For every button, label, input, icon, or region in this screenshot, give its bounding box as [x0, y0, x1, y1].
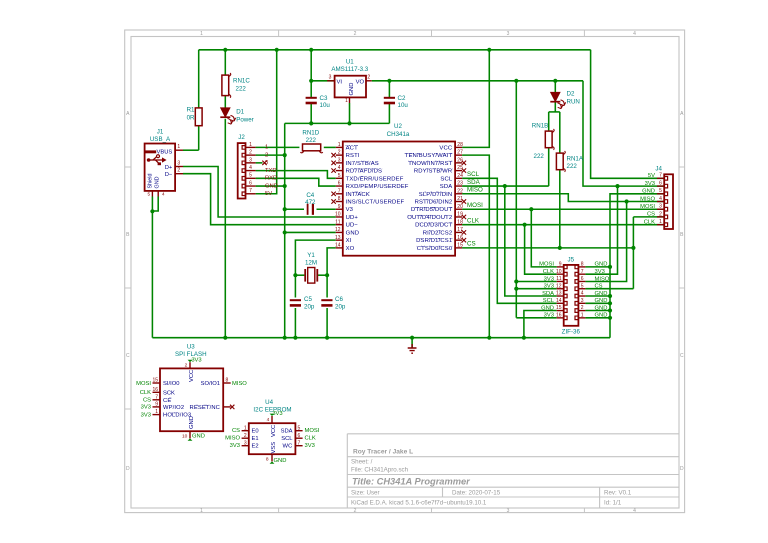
junction 3V3 at C2: [387, 79, 391, 83]
svg-text:5V: 5V: [648, 173, 655, 179]
svg-text:C4: C4: [306, 192, 314, 199]
J2 pin 4: [242, 169, 245, 173]
svg-text:1: 1: [155, 409, 158, 415]
U2 pin 21 RST/D6/DIN2: [455, 201, 462, 203]
U2 pin 8 INS/SLCT/USERDEF: [336, 201, 343, 203]
U2 pin 14 XO: [336, 247, 343, 249]
J1 pin D+: [175, 166, 183, 168]
svg-text:5: 5: [581, 283, 584, 289]
svg-text:CS: CS: [232, 428, 240, 434]
U2 pin 20 DTR/D5/DOUT: [455, 208, 462, 210]
svg-text:3: 3: [507, 508, 510, 514]
J5 pin 7 3V3: [575, 272, 578, 276]
svg-text:3: 3: [249, 157, 252, 163]
U2 pin 22 SLP/D7/DIN: [455, 193, 462, 195]
svg-text:13: 13: [556, 291, 562, 297]
U2 pin 1 ACT: [336, 146, 343, 148]
svg-text:18: 18: [457, 219, 463, 225]
svg-text:J5: J5: [568, 257, 575, 264]
U3 pin 15 SI/IO0: [153, 382, 161, 384]
U3 pin RESET/NC: [223, 406, 231, 408]
wire J5 GND pin15 to ground rail: [524, 311, 557, 338]
svg-text:3: 3: [329, 75, 332, 81]
connector J5 ZIF-36 body: [564, 265, 579, 326]
J5 pin 12 3V3: [564, 287, 567, 291]
wire J2 TXD to U2 pin5: [256, 171, 336, 179]
svg-text:2: 2: [177, 168, 180, 174]
U2 pin 19 OUT/D4/DOUT2: [455, 216, 462, 218]
svg-text:File: CH341Apro.sch: File: CH341Apro.sch: [351, 467, 409, 474]
svg-text:CLK: CLK: [467, 218, 480, 225]
J1 shield pin stubs: [151, 191, 153, 197]
junction ground rail at U2 pin27 drop: [487, 336, 491, 340]
junction on 5V rail at J2 riser: [275, 48, 279, 52]
J2 pin 5: [242, 177, 245, 181]
wire C6 to ground rail: [326, 308, 328, 338]
svg-text:1: 1: [249, 142, 252, 148]
J5 pin 5 CS: [575, 287, 578, 291]
U3 pin 7 CE: [153, 399, 161, 401]
LED D2 RUN: [551, 92, 560, 101]
J5 pin 10 CLK: [564, 272, 567, 276]
no-connect X on U2 pin 16: [462, 238, 466, 242]
svg-text:C5: C5: [304, 296, 312, 303]
svg-text:22: 22: [457, 188, 463, 194]
junction MISO at J5 riser: [625, 199, 629, 203]
no-connect X on U2 pin 4: [331, 168, 335, 172]
J5 pin 3 GND: [575, 302, 578, 306]
svg-text:3V3: 3V3: [191, 358, 201, 364]
svg-text:7: 7: [338, 188, 341, 194]
J4 pin 1 CLK: [664, 223, 667, 227]
svg-text:5: 5: [249, 173, 252, 179]
U2 pin 3 IN7/STB/AS: [336, 162, 343, 164]
svg-text:MISO: MISO: [232, 381, 247, 387]
svg-text:222: 222: [534, 153, 545, 160]
svg-text:V3: V3: [346, 207, 354, 213]
svg-text:3: 3: [581, 298, 584, 304]
junction J5 GND bus pin1: [608, 316, 612, 320]
wire crystal left plate: [295, 274, 304, 276]
wire U2 SDA to RN1B: [462, 185, 549, 187]
frame row ticks left: [125, 166, 131, 168]
svg-text:E0: E0: [252, 429, 259, 435]
svg-text:RN1A: RN1A: [567, 156, 584, 163]
svg-text:1: 1: [244, 425, 247, 431]
wire MOSI riser to J5 pin9: [531, 209, 556, 267]
junction ground rail at J5 GND drop: [522, 336, 526, 340]
svg-text:MOSI: MOSI: [640, 204, 655, 210]
svg-text:GND: GND: [595, 298, 608, 304]
wire D2 cathode junction bar: [549, 111, 560, 113]
svg-text:GND: GND: [155, 176, 161, 188]
svg-text:C: C: [126, 353, 130, 359]
wire RN1B bottom to SDA net: [548, 148, 550, 186]
junction ground rail at GND bus: [283, 336, 287, 340]
junction GND bus at C4: [283, 207, 287, 211]
svg-text:SLP/D7/DIN: SLP/D7/DIN: [419, 192, 453, 198]
wire RN1D to U2 ACT pin1: [324, 146, 336, 148]
svg-text:RN1B: RN1B: [532, 123, 549, 130]
svg-text:4: 4: [633, 508, 636, 514]
J5 pin 6 MISO: [575, 280, 578, 284]
U2 pin 16 DSR/D1/CS1: [455, 239, 462, 241]
svg-text:3: 3: [177, 160, 180, 166]
U4 VSS pin bottom: [271, 454, 273, 461]
wire J1 D- to U2 UD-: [183, 174, 336, 225]
no-connect X on U2 pin 26: [462, 161, 466, 165]
svg-text:11: 11: [556, 276, 561, 282]
capacitor C4: [307, 204, 309, 215]
regulator U1 AMS1117-3.3: [335, 76, 366, 98]
wire GND J4 pin5 to J5 GND bus: [610, 194, 664, 338]
wire J1 D+ to U2 UD+: [183, 167, 336, 217]
svg-text:222: 222: [306, 137, 317, 144]
resistor R1: [195, 108, 202, 126]
wire C3 bottom to GND: [310, 103, 312, 123]
svg-text:SDA: SDA: [467, 179, 481, 186]
svg-text:SCL: SCL: [440, 176, 452, 182]
U2 pin 18 DCD/D3/DCT: [455, 224, 462, 226]
junction GND bus at U2 GND: [283, 230, 287, 234]
wire J2 RXD to U2 pin6: [256, 178, 336, 186]
svg-text:4: 4: [659, 196, 662, 202]
svg-text:J4: J4: [655, 165, 662, 172]
svg-text:RSTI: RSTI: [346, 153, 360, 159]
wire crystal left to C5: [294, 275, 296, 297]
svg-text:D1: D1: [236, 109, 244, 116]
wire RN1C top from rail: [224, 50, 226, 75]
U3 pin 16 SCK: [153, 391, 161, 393]
svg-text:VBUS: VBUS: [157, 149, 173, 155]
svg-text:DCD/D3/DCT: DCD/D3/DCT: [415, 223, 452, 229]
svg-text:Date: 2020-07-15: Date: 2020-07-15: [452, 490, 501, 497]
J1 pin D-: [175, 173, 183, 175]
svg-text:10: 10: [335, 212, 341, 218]
connector J1 USB_A: [145, 144, 176, 191]
svg-text:1: 1: [581, 312, 584, 318]
capacitor C3: [306, 97, 317, 99]
wire U1 GND pin down: [349, 103, 351, 123]
junction J5 GND bus pin4: [608, 294, 612, 298]
svg-text:1: 1: [338, 142, 341, 148]
svg-text:15: 15: [152, 378, 158, 384]
svg-text:TXD: TXD: [265, 168, 277, 174]
svg-text:RN1C: RN1C: [233, 78, 250, 85]
svg-text:U1: U1: [346, 59, 354, 66]
wire 3V3 corner down to J4 pin 6: [583, 81, 664, 186]
svg-text:AMS1117-3.3: AMS1117-3.3: [331, 66, 368, 73]
svg-text:GND: GND: [265, 183, 278, 189]
svg-text:1: 1: [177, 144, 180, 150]
J5 pin 13 SDA: [564, 294, 567, 298]
frame column ticks top: [278, 30, 280, 37]
svg-text:4: 4: [338, 165, 341, 171]
U3 VCC pin top: [189, 362, 191, 368]
svg-text:7: 7: [298, 440, 301, 446]
svg-text:10: 10: [182, 433, 188, 439]
svg-text:5: 5: [147, 191, 150, 196]
svg-text:U3: U3: [187, 343, 195, 350]
svg-text:J1: J1: [157, 128, 164, 135]
J5 pin 2 GND: [575, 309, 578, 313]
svg-text:8: 8: [338, 196, 341, 202]
svg-text:1: 1: [265, 145, 268, 151]
svg-text:GND: GND: [346, 230, 360, 236]
title block cell dividers: [443, 487, 600, 508]
svg-text:10: 10: [556, 269, 562, 275]
junction J5 GND bus pin3: [608, 301, 612, 305]
J2 pin 7: [242, 192, 245, 196]
svg-text:12M: 12M: [305, 260, 317, 267]
svg-text:2: 2: [338, 150, 341, 156]
svg-text:3V3: 3V3: [544, 276, 554, 282]
wire MISO riser to J5 pin6: [585, 202, 626, 282]
svg-text:CLK: CLK: [140, 390, 151, 396]
svg-text:4: 4: [633, 31, 636, 37]
svg-text:Shield: Shield: [147, 174, 153, 189]
connector J2: [238, 143, 246, 198]
svg-text:GND: GND: [595, 262, 608, 268]
wire 5V rail corner down to J4 pin 7: [591, 50, 665, 179]
svg-text:2: 2: [249, 150, 252, 156]
J5 pin 16 3V3: [564, 316, 567, 320]
wire GND bus to U2 GND pin12: [285, 231, 336, 233]
U2 pin 4 RD7/AFD/DS: [336, 170, 343, 172]
junction 3V3-J4 wire at J5 pin7 riser: [615, 184, 619, 188]
no-connect X on U2 pin 7: [331, 192, 335, 196]
U2 pin 27 TEN/BUSY/WAIT: [455, 154, 462, 156]
U2 pin 10 UD+: [336, 216, 343, 218]
svg-text:8: 8: [266, 456, 269, 462]
svg-text:6: 6: [249, 180, 252, 186]
resistor RN1A: [556, 153, 563, 170]
J5 pin 9 MOSI: [564, 265, 567, 269]
svg-text:GND: GND: [274, 458, 287, 464]
svg-text:Id: 1/1: Id: 1/1: [604, 500, 622, 507]
U3 pin 8 SO/IO1: [223, 382, 231, 384]
junction J5 GND bus pin2: [608, 308, 612, 312]
svg-text:4: 4: [249, 165, 252, 171]
junction GND bus at J2 pin6: [283, 184, 287, 188]
svg-text:WP/IO2: WP/IO2: [163, 405, 184, 411]
svg-text:SDA: SDA: [542, 291, 554, 297]
svg-text:D−: D−: [165, 172, 173, 178]
svg-text:DTR/D5/DOUT: DTR/D5/DOUT: [411, 207, 452, 213]
svg-text:1: 1: [200, 31, 203, 37]
no-connect X on U2 pin 19: [462, 215, 466, 219]
U2 pin 11 UD−: [336, 224, 343, 226]
U4 pin 7 WC: [295, 445, 302, 447]
svg-text:Size: User: Size: User: [351, 490, 380, 497]
J4 pin 3 MOSI: [664, 207, 667, 211]
svg-text:8: 8: [581, 262, 584, 268]
no-connect X on U2 pin 21: [462, 199, 466, 203]
svg-text:MOSI: MOSI: [467, 202, 483, 209]
svg-text:MOSI: MOSI: [305, 428, 320, 434]
svg-text:6: 6: [338, 181, 341, 187]
wire C4 right to U2 V3 pin9: [317, 208, 336, 210]
svg-text:MISO: MISO: [595, 276, 610, 282]
svg-text:SCL: SCL: [281, 436, 293, 442]
svg-text:J2: J2: [238, 134, 245, 141]
wire GND horizontal under U1: [285, 122, 390, 124]
U2 pin 28 VCC: [455, 146, 462, 148]
U2 pin 5 TXD/ERR/USERDEF: [336, 177, 343, 179]
svg-text:5V: 5V: [265, 191, 272, 197]
U2 pin 13 XI: [336, 239, 343, 241]
svg-text:INT/ACK: INT/ACK: [346, 192, 370, 198]
svg-text:15: 15: [457, 242, 463, 248]
svg-text:CS: CS: [467, 241, 476, 248]
J5 pin 1 GND: [575, 316, 578, 320]
svg-text:7: 7: [659, 173, 662, 179]
svg-text:SDA: SDA: [440, 184, 453, 190]
wire 5V top rail: [199, 49, 591, 51]
wire D2 to RN1B top: [548, 112, 550, 131]
svg-text:INS/SLCT/USERDEF: INS/SLCT/USERDEF: [346, 200, 405, 206]
J4 pin 2 CS: [664, 215, 667, 219]
svg-text:CS: CS: [595, 284, 603, 290]
wire C2 bottom to GND corner: [388, 103, 390, 123]
svg-text:TNOW/IN7/RST: TNOW/IN7/RST: [408, 161, 452, 167]
svg-text:Sheet: /: Sheet: /: [351, 459, 373, 466]
svg-text:RI/D2/CS2: RI/D2/CS2: [423, 230, 453, 236]
no-connect X on U3 RESET pin: [230, 405, 234, 409]
frame row ticks right: [679, 166, 685, 168]
svg-text:VCC: VCC: [271, 425, 277, 437]
wire J2 GND to GND bus: [256, 185, 285, 187]
wire J2 5V riser to rail: [256, 50, 277, 194]
svg-text:CS: CS: [647, 212, 655, 218]
J2 pin 3: [242, 161, 245, 165]
U2 pin 6 RXD/PEMP/USERDEF: [336, 185, 343, 187]
no-connect X on U2 pin 3: [331, 161, 335, 165]
svg-text:Rev: V0.1: Rev: V0.1: [604, 490, 632, 497]
wire 3V3 riser to J5 pins 11 12 16: [515, 81, 517, 318]
wire U2 MOSI to J4 pin3: [462, 208, 664, 210]
svg-text:MOSI: MOSI: [136, 381, 151, 387]
svg-text:SDA: SDA: [281, 429, 293, 435]
svg-text:222: 222: [236, 86, 247, 93]
wire U2 XI to crystal left: [295, 240, 335, 275]
J5 pin 15 GND: [564, 309, 567, 313]
connector J4: [664, 174, 673, 229]
U4 pin 3 E2: [242, 445, 249, 447]
svg-text:CTS/D0/CS0: CTS/D0/CS0: [417, 246, 453, 252]
svg-text:5: 5: [298, 425, 301, 431]
svg-text:3: 3: [244, 440, 247, 446]
wire VBUS R1 bottom to J1 pin1: [198, 126, 200, 151]
junction 3V3 at J5 riser: [514, 79, 518, 83]
svg-text:28: 28: [457, 142, 463, 148]
svg-text:222: 222: [567, 163, 578, 170]
svg-text:RD7/AFD/DS: RD7/AFD/DS: [346, 169, 383, 175]
wire 5V riser to U1 VI and C3: [310, 50, 312, 98]
svg-text:4: 4: [267, 417, 270, 423]
svg-text:3: 3: [507, 31, 510, 37]
svg-text:CLK: CLK: [543, 269, 554, 275]
svg-text:GND: GND: [595, 305, 608, 311]
svg-text:3: 3: [659, 204, 662, 210]
svg-text:MISO: MISO: [467, 187, 483, 194]
wire CLK riser to J5 pin10: [525, 225, 557, 275]
wire 3V3 riser to J5 pin7: [585, 186, 617, 274]
svg-text:7: 7: [581, 269, 584, 275]
wire J2 pin2 to GND bus: [256, 154, 285, 156]
svg-text:0R: 0R: [187, 115, 195, 122]
svg-text:20p: 20p: [304, 304, 315, 311]
svg-text:3V3: 3V3: [141, 405, 151, 411]
svg-text:WC: WC: [283, 444, 293, 450]
svg-text:TXD/ERR/USERDEF: TXD/ERR/USERDEF: [346, 176, 404, 182]
svg-text:1: 1: [659, 219, 662, 225]
svg-text:VCC: VCC: [439, 145, 452, 151]
U2 pin 23 SDA: [455, 185, 462, 187]
wire GND bus vertical: [284, 123, 286, 337]
U2 pin 17 RI/D2/CS2: [455, 231, 462, 233]
svg-text:6: 6: [581, 276, 584, 282]
svg-text:IN7/STB/AS: IN7/STB/AS: [346, 161, 379, 167]
svg-text:3V3: 3V3: [544, 284, 554, 290]
svg-text:CLK: CLK: [644, 220, 655, 226]
svg-text:23: 23: [457, 181, 463, 187]
wire U2 pin27 to ground rail: [462, 155, 489, 338]
junction on 5V rail at RN1C: [223, 48, 227, 52]
junction CLK at J5 riser: [523, 223, 527, 227]
no-connect X on U2 pin 8: [331, 199, 335, 203]
svg-text:RXD/PEMP/USERDEF: RXD/PEMP/USERDEF: [346, 184, 409, 190]
svg-text:3: 3: [338, 157, 341, 163]
svg-text:2: 2: [354, 508, 357, 514]
svg-text:11: 11: [335, 219, 340, 225]
IC U4 I2C EEPROM body: [249, 423, 296, 454]
svg-text:USB_A: USB_A: [150, 136, 171, 143]
svg-text:D: D: [680, 466, 684, 472]
wire D2 to RN1A top: [559, 112, 561, 153]
svg-text:3V3: 3V3: [305, 443, 315, 449]
junction GND bus at J2 pin2: [283, 153, 287, 157]
U4 pin 2 E1: [242, 437, 249, 439]
svg-text:1: 1: [200, 508, 203, 514]
svg-text:U2: U2: [394, 123, 402, 130]
svg-text:14: 14: [556, 298, 562, 304]
resistor RN1C: [222, 75, 229, 96]
svg-text:CE: CE: [163, 398, 171, 404]
crystal Y1 12M: [308, 268, 315, 284]
svg-text:2: 2: [185, 362, 188, 368]
wire 5V rail to R1: [198, 50, 200, 108]
junction on 5V rail at U2 VCC riser: [487, 48, 491, 52]
wire U2 XO to crystal right: [327, 248, 336, 275]
svg-text:10u: 10u: [320, 102, 331, 109]
svg-text:GND: GND: [192, 434, 205, 440]
svg-text:27: 27: [457, 150, 463, 156]
wire D1 cathode to ground rail: [224, 119, 226, 338]
svg-text:14: 14: [335, 242, 341, 248]
wire U2 VCC to 5V rail riser: [462, 50, 489, 148]
J4 pin 5 GND: [664, 192, 667, 196]
svg-text:RN1D: RN1D: [302, 130, 319, 137]
wire J1 shield to ground rail: [151, 211, 153, 338]
svg-text:OUT/D4/DOUT2: OUT/D4/DOUT2: [407, 215, 452, 221]
capacitor C5: [290, 299, 301, 301]
svg-text:3V3: 3V3: [230, 443, 240, 449]
svg-text:RDY/STB/WR: RDY/STB/WR: [414, 169, 452, 175]
J1 USB trident icon: [147, 158, 151, 162]
junction 3V3 at D2 anode: [553, 79, 557, 83]
svg-text:3V3: 3V3: [544, 313, 554, 319]
